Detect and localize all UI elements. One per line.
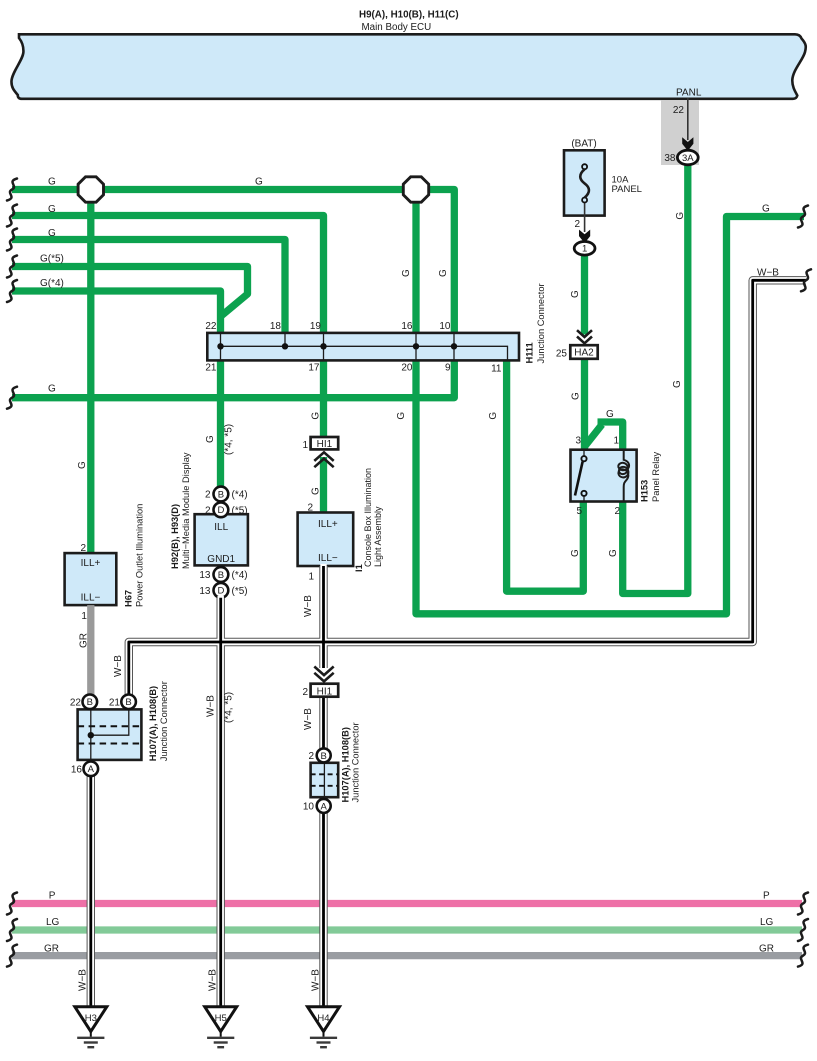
svg-text:G: G xyxy=(48,204,56,215)
svg-text:(*5): (*5) xyxy=(232,506,248,517)
svg-text:G: G xyxy=(672,380,683,388)
svg-text:B: B xyxy=(321,751,327,762)
svg-text:3: 3 xyxy=(575,436,581,447)
svg-text:G: G xyxy=(77,461,88,469)
svg-text:20: 20 xyxy=(401,363,413,374)
svg-text:G: G xyxy=(255,177,263,188)
svg-text:ILL+: ILL+ xyxy=(318,519,338,530)
svg-text:GR: GR xyxy=(44,944,59,955)
svg-text:G(*4): G(*4) xyxy=(40,278,64,289)
svg-text:1: 1 xyxy=(81,611,87,622)
svg-text:13: 13 xyxy=(199,586,211,597)
svg-text:1: 1 xyxy=(582,244,587,255)
svg-text:H153: H153 xyxy=(640,480,650,502)
svg-text:G: G xyxy=(205,435,216,443)
svg-text:Junction Connector: Junction Connector xyxy=(536,283,546,363)
svg-text:(*4): (*4) xyxy=(232,570,248,581)
svg-text:25: 25 xyxy=(556,348,568,359)
svg-text:HA2: HA2 xyxy=(574,348,594,359)
svg-text:10: 10 xyxy=(303,801,315,812)
svg-text:A: A xyxy=(88,764,95,775)
svg-text:H9(A), H10(B), H11(C): H9(A), H10(B), H11(C) xyxy=(359,10,459,21)
svg-text:G: G xyxy=(675,212,686,220)
svg-text:2: 2 xyxy=(205,506,211,517)
svg-text:Junction Connector: Junction Connector xyxy=(350,722,360,802)
svg-text:1: 1 xyxy=(302,440,308,451)
svg-text:Junction Connector: Junction Connector xyxy=(159,681,169,761)
svg-text:H3: H3 xyxy=(85,1013,97,1024)
svg-text:G: G xyxy=(438,269,449,277)
svg-text:LG: LG xyxy=(46,917,60,928)
svg-text:16: 16 xyxy=(71,764,83,775)
svg-text:G: G xyxy=(570,549,581,557)
svg-text:B: B xyxy=(125,697,131,708)
svg-text:17: 17 xyxy=(308,363,320,374)
svg-text:21: 21 xyxy=(109,697,121,708)
svg-text:(BAT): (BAT) xyxy=(571,139,596,150)
svg-text:3A: 3A xyxy=(682,153,694,164)
svg-text:G: G xyxy=(762,204,770,215)
svg-text:21: 21 xyxy=(205,363,217,374)
svg-text:2: 2 xyxy=(80,543,86,554)
svg-text:2: 2 xyxy=(308,751,314,762)
svg-text:G(*5): G(*5) xyxy=(40,254,64,265)
svg-text:G: G xyxy=(310,412,321,420)
svg-text:HI1: HI1 xyxy=(317,686,333,697)
svg-text:GND1: GND1 xyxy=(207,554,235,565)
svg-text:1: 1 xyxy=(309,572,315,583)
svg-text:W−B: W−B xyxy=(208,969,219,991)
svg-text:D: D xyxy=(217,505,224,516)
svg-text:G: G xyxy=(48,228,56,239)
svg-text:W−B: W−B xyxy=(310,969,321,991)
svg-text:Main Body ECU: Main Body ECU xyxy=(362,22,432,33)
svg-text:W−B: W−B xyxy=(78,969,89,991)
svg-text:H4: H4 xyxy=(317,1013,329,1024)
svg-text:G: G xyxy=(606,409,614,420)
svg-text:Console Box Illumination: Console Box Illumination xyxy=(363,468,373,567)
svg-text:B: B xyxy=(218,570,224,581)
svg-text:W−B: W−B xyxy=(303,708,314,730)
svg-text:H107(A), H108(B): H107(A), H108(B) xyxy=(148,686,158,761)
svg-text:ILL−: ILL− xyxy=(81,593,101,604)
svg-text:PANEL: PANEL xyxy=(612,184,642,195)
svg-text:ILL−: ILL− xyxy=(318,553,338,564)
svg-text:2: 2 xyxy=(307,503,313,514)
svg-text:ILL+: ILL+ xyxy=(81,558,101,569)
svg-text:PANL: PANL xyxy=(676,87,702,98)
svg-text:G: G xyxy=(48,384,56,395)
svg-text:10: 10 xyxy=(439,321,451,332)
svg-text:W−B: W−B xyxy=(206,695,217,717)
svg-text:(*4, *5): (*4, *5) xyxy=(224,424,235,455)
svg-text:G: G xyxy=(570,290,581,298)
svg-text:2: 2 xyxy=(614,506,620,517)
svg-text:GR: GR xyxy=(79,633,90,648)
svg-text:22: 22 xyxy=(70,697,82,708)
svg-text:P: P xyxy=(49,891,56,902)
svg-text:B: B xyxy=(218,489,224,500)
svg-text:H107(A), H108(B): H107(A), H108(B) xyxy=(341,727,351,802)
svg-text:B: B xyxy=(87,697,93,708)
svg-text:Multi−Media Module Display: Multi−Media Module Display xyxy=(181,452,191,569)
svg-text:11: 11 xyxy=(491,364,502,375)
svg-text:(*4): (*4) xyxy=(232,490,248,501)
svg-text:G: G xyxy=(608,549,619,557)
svg-text:Power Outlet Illumination: Power Outlet Illumination xyxy=(135,504,145,607)
svg-text:2: 2 xyxy=(205,490,211,501)
svg-text:G: G xyxy=(401,269,412,277)
svg-text:(*4, *5): (*4, *5) xyxy=(224,692,235,723)
svg-text:H111: H111 xyxy=(524,342,534,363)
svg-text:W−B: W−B xyxy=(757,268,779,279)
svg-text:18: 18 xyxy=(270,321,282,332)
svg-text:G: G xyxy=(488,412,499,420)
svg-text:Panel Relay: Panel Relay xyxy=(651,452,661,502)
svg-text:5: 5 xyxy=(576,506,582,517)
svg-text:1: 1 xyxy=(613,436,619,447)
svg-text:G: G xyxy=(396,412,407,420)
svg-text:GR: GR xyxy=(759,944,774,955)
svg-text:9: 9 xyxy=(445,363,451,374)
svg-text:W−B: W−B xyxy=(303,595,314,617)
svg-text:13: 13 xyxy=(199,570,211,581)
svg-text:19: 19 xyxy=(310,321,322,332)
svg-text:G: G xyxy=(571,392,582,400)
svg-text:G: G xyxy=(48,177,56,188)
svg-text:Light Assembly: Light Assembly xyxy=(373,506,383,567)
svg-text:H67: H67 xyxy=(124,590,134,607)
svg-text:22: 22 xyxy=(205,321,217,332)
svg-text:P: P xyxy=(763,891,770,902)
svg-text:ILL: ILL xyxy=(214,522,228,533)
svg-text:2: 2 xyxy=(574,219,580,230)
svg-text:A: A xyxy=(321,801,328,812)
svg-text:HI1: HI1 xyxy=(317,439,333,450)
svg-text:2: 2 xyxy=(302,687,308,698)
svg-text:D: D xyxy=(217,586,224,597)
svg-text:W−B: W−B xyxy=(113,655,124,677)
svg-text:38: 38 xyxy=(664,153,676,164)
svg-text:H5: H5 xyxy=(215,1013,227,1024)
svg-text:(*5): (*5) xyxy=(232,586,248,597)
svg-text:H92(B), H93(D): H92(B), H93(D) xyxy=(170,504,180,569)
svg-text:16: 16 xyxy=(401,321,413,332)
svg-text:LG: LG xyxy=(760,917,774,928)
svg-text:G: G xyxy=(311,487,322,495)
svg-text:22: 22 xyxy=(673,105,685,116)
